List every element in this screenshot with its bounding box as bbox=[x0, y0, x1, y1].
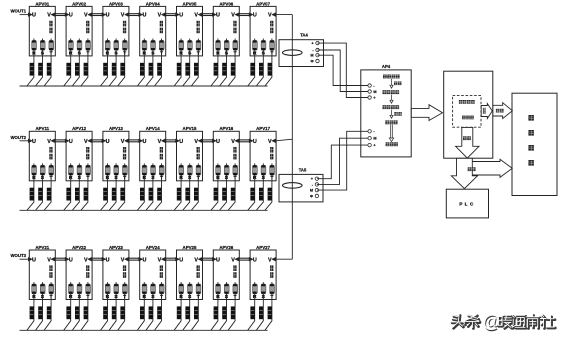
svg-text:U: U bbox=[253, 13, 257, 19]
module APV15 box bbox=[177, 131, 203, 181]
fuse FU2 of APV02 lead bbox=[78, 39, 80, 41]
fuse FU3 of APV07 bottom cap bbox=[270, 48, 274, 50]
wire DC link APV16-APV17 lower bbox=[239, 141, 251, 143]
fuse FU1 of APV05 body bbox=[179, 40, 184, 50]
svg-text:V: V bbox=[84, 13, 88, 19]
wire DC link APV22-APV23 lower bbox=[92, 259, 104, 261]
wire DC link APV23-APV24 upper bbox=[129, 257, 141, 259]
fuse FU3 of APV25 bottom cap bbox=[196, 292, 200, 294]
text data on PLC arrow bbox=[468, 167, 472, 171]
fuse FU3 of APV23 bottom cap bbox=[123, 292, 127, 294]
wire row2 V output to series bus bbox=[276, 139, 293, 141]
wire label CS23 bbox=[112, 306, 116, 319]
vertical marking JX/JR of APV06 bbox=[233, 21, 236, 27]
fuse FU3 of APV06 top cap bbox=[233, 41, 237, 43]
svg-text:APV11: APV11 bbox=[35, 126, 49, 131]
fuse FU1 of APV23 body bbox=[105, 284, 110, 294]
wire phase R drop of APV06 bbox=[211, 50, 218, 86]
fuse FU2 of APV25 top cap bbox=[188, 284, 192, 286]
svg-text:V: V bbox=[231, 139, 235, 145]
wire label 3R06 bbox=[214, 63, 218, 76]
fuse FU1 of APV15 body bbox=[179, 165, 184, 175]
wire label 3T12 bbox=[84, 188, 88, 201]
fuse FU3 of APV02 top cap bbox=[86, 41, 90, 43]
arrow into V of APV03 bbox=[125, 13, 129, 17]
wire row3 V output from series bus bbox=[276, 258, 293, 260]
module APV01 box bbox=[29, 6, 55, 56]
fuse FU2 of APV07 body bbox=[261, 40, 266, 50]
current transformer TA5 coil bbox=[283, 183, 303, 189]
wire label 3S17 bbox=[259, 188, 263, 201]
arrow into U of APV23 bbox=[102, 257, 106, 261]
text data inside box arrow bbox=[463, 136, 467, 140]
fuse FU1 of APV22 body bbox=[69, 284, 74, 294]
wire label 3S01 bbox=[38, 63, 42, 76]
fuse FU2 of APV17 bottom cap bbox=[261, 173, 265, 175]
comparator inner dashed box bbox=[453, 96, 481, 128]
wire DC link APV06-APV07 lower bbox=[239, 15, 251, 17]
fuse FU3 of APV04 top cap bbox=[160, 41, 164, 43]
small hollow arrow comparator internal bbox=[481, 104, 492, 119]
wire phase T drop of APV23 bbox=[118, 294, 125, 330]
svg-text:APV16: APV16 bbox=[219, 126, 233, 131]
module APV11 box bbox=[29, 131, 55, 181]
HMI text machine bbox=[528, 130, 534, 136]
fuse FU1 of APV04 lead bbox=[143, 39, 145, 41]
fuse FU2 of APV04 body bbox=[151, 40, 156, 50]
fuse FU1 of APV07 top cap bbox=[253, 41, 257, 43]
vertical marking JX/JR of APV15 bbox=[197, 147, 200, 153]
wire phase S drop of APV26 bbox=[220, 294, 227, 330]
wire phase T drop of APV25 bbox=[191, 294, 198, 330]
fuse FU3 of APV25 lead bbox=[197, 282, 199, 284]
fuse FU1 of APV05 lead bbox=[180, 39, 182, 41]
wire phase R drop of APV22 bbox=[64, 294, 71, 330]
module APV14 box bbox=[140, 131, 166, 181]
fuse FU2 of APV03 lead bbox=[115, 39, 117, 41]
wire phase T drop of APV15 bbox=[191, 175, 198, 210]
wire label 3R15 bbox=[177, 188, 181, 201]
wire DC link APV03-APV04 upper bbox=[129, 13, 141, 15]
fuse FU3 of APV17 top cap bbox=[270, 165, 274, 167]
fuse FU1 of APV12 bottom cap bbox=[69, 173, 73, 175]
fuse FU3 of APV21 lead bbox=[50, 282, 52, 284]
svg-text:V: V bbox=[158, 257, 162, 263]
arrow into U of APV14 bbox=[139, 139, 143, 143]
PLC box bbox=[446, 189, 488, 218]
fuse FU2 of APV25 body bbox=[188, 284, 193, 294]
svg-text:Φ: Φ bbox=[310, 59, 313, 63]
fuse FU3 of APV14 lead bbox=[161, 163, 163, 165]
wire phase T drop of APV01 bbox=[44, 50, 51, 86]
wire label CS22 bbox=[75, 306, 79, 319]
svg-text:M: M bbox=[310, 189, 313, 193]
arrow into V of APV24 bbox=[161, 257, 165, 261]
fuse FU1 of APV07 lead bbox=[254, 39, 256, 41]
arrow into U of APV13 bbox=[102, 139, 106, 143]
fuse FU1 of APV22 top cap bbox=[69, 284, 73, 286]
fuse FU2 of APV06 bottom cap bbox=[225, 48, 229, 50]
fuse FU2 of APV22 lead bbox=[78, 282, 80, 284]
AP4 flow connector 2 bbox=[390, 95, 393, 104]
AP4 flow connector 3 bbox=[390, 110, 393, 119]
wire label CT22 bbox=[84, 306, 88, 319]
fuse FU3 of APV02 bottom cap bbox=[86, 48, 90, 50]
svg-text:U: U bbox=[142, 257, 146, 263]
fuse FU2 of APV06 top cap bbox=[225, 41, 229, 43]
fuse FU1 of APV17 top cap bbox=[253, 165, 257, 167]
svg-text:+: + bbox=[373, 144, 376, 148]
arrow into V of APV01 bbox=[51, 13, 55, 17]
svg-text:V: V bbox=[194, 139, 198, 145]
fuse FU2 of APV25 bottom cap bbox=[188, 292, 192, 294]
fuse FU3 of APV07 top cap bbox=[270, 41, 274, 43]
svg-text:U: U bbox=[142, 139, 146, 145]
fuse FU3 of APV06 bottom cap bbox=[233, 48, 237, 50]
wire phase S drop of APV12 bbox=[72, 175, 79, 210]
wire DC link APV04-APV05 lower bbox=[165, 15, 177, 17]
svg-text:APV04: APV04 bbox=[146, 1, 160, 6]
fuse FU1 of APV27 body bbox=[253, 284, 258, 294]
module APV16 box bbox=[213, 131, 239, 181]
arrow into V of APV17 bbox=[272, 139, 276, 143]
wire phase T drop of APV12 bbox=[81, 175, 88, 210]
wire DC link APV21-APV22 lower bbox=[55, 259, 67, 261]
svg-text:V: V bbox=[268, 257, 272, 263]
svg-text:APV05: APV05 bbox=[183, 1, 197, 6]
fuse FU3 of APV14 bottom cap bbox=[160, 173, 164, 175]
bus bar row 3 bbox=[20, 329, 268, 331]
svg-text:U: U bbox=[69, 257, 73, 263]
fuse FU3 of APV23 top cap bbox=[123, 284, 127, 286]
fuse FU2 of APV27 bottom cap bbox=[261, 292, 265, 294]
fuse FU3 of APV05 body bbox=[196, 40, 201, 50]
wire label CS27 bbox=[259, 306, 263, 319]
fuse FU3 of APV01 lead bbox=[50, 39, 52, 41]
wire WOUT3 input feed bbox=[20, 258, 30, 260]
arrow into V of APV27 bbox=[272, 257, 276, 261]
fuse FU1 of APV22 lead bbox=[70, 282, 72, 284]
fuse FU3 of APV22 bottom cap bbox=[86, 292, 90, 294]
fuse FU3 of APV12 bottom cap bbox=[86, 173, 90, 175]
wire label CS25 bbox=[185, 306, 189, 319]
vertical marking JX/JR of APV07 bbox=[270, 21, 273, 27]
wire label 3R01 bbox=[30, 63, 34, 76]
wire phase T drop of APV07 bbox=[265, 50, 272, 86]
arrow into U of APV27 bbox=[249, 257, 253, 261]
module APV23 box bbox=[103, 250, 129, 300]
svg-text:U: U bbox=[142, 13, 146, 19]
wire phase S drop of APV21 bbox=[36, 294, 43, 330]
fuse FU1 of APV24 bottom cap bbox=[142, 292, 146, 294]
wire phase S drop of APV17 bbox=[256, 175, 263, 210]
fuse FU2 of APV23 bottom cap bbox=[114, 292, 118, 294]
svg-text:APV12: APV12 bbox=[72, 126, 86, 131]
fuse FU3 of APV14 top cap bbox=[160, 165, 164, 167]
HMI text inter bbox=[528, 145, 534, 151]
wire label CR27 bbox=[250, 306, 254, 319]
svg-text:AP4: AP4 bbox=[382, 64, 391, 69]
wire label 3T14 bbox=[157, 188, 161, 201]
wire label 3T17 bbox=[268, 188, 272, 201]
fuse FU1 of APV03 top cap bbox=[106, 41, 110, 43]
fuse FU2 of APV14 top cap bbox=[151, 165, 155, 167]
small arrow vertical tag bbox=[483, 108, 486, 111]
TA4 terminal Φ pin bbox=[316, 59, 319, 62]
fuse FU3 of APV21 top cap bbox=[49, 284, 53, 286]
fuse FU2 of APV01 top cap bbox=[41, 41, 45, 43]
wire phase T drop of APV22 bbox=[81, 294, 88, 330]
fuse FU2 of APV16 lead bbox=[226, 163, 228, 165]
wire TA5 + to AP4 bbox=[317, 145, 370, 179]
wire TA4 M to AP4 bbox=[318, 55, 370, 85]
fuse FU1 of APV26 top cap bbox=[216, 284, 220, 286]
fuse FU3 of APV22 body bbox=[86, 284, 91, 294]
wire phase R drop of APV04 bbox=[137, 50, 144, 86]
fuse FU3 of APV05 top cap bbox=[196, 41, 200, 43]
fuse FU2 of APV16 body bbox=[224, 165, 229, 175]
fuse FU3 of APV07 body bbox=[270, 40, 275, 50]
fuse FU2 of APV16 top cap bbox=[225, 165, 229, 167]
fuse FU2 of APV24 body bbox=[151, 284, 156, 294]
arrow into V of APV15 bbox=[198, 139, 202, 143]
fuse FU2 of APV27 top cap bbox=[261, 284, 265, 286]
TA5 terminal Φ pin bbox=[315, 194, 318, 197]
wire label 3R07 bbox=[250, 63, 254, 76]
wire label 3S02 bbox=[75, 63, 79, 76]
arrow into V of APV14 bbox=[161, 139, 165, 143]
arrow into V of APV06 bbox=[235, 13, 239, 17]
fuse FU3 of APV13 body bbox=[123, 165, 128, 175]
svg-text:U: U bbox=[106, 257, 110, 263]
wire label CR24 bbox=[140, 306, 144, 319]
wire phase T drop of APV06 bbox=[228, 50, 235, 86]
svg-text:U: U bbox=[216, 13, 220, 19]
svg-text:V: V bbox=[121, 139, 125, 145]
fuse FU3 of APV22 lead bbox=[87, 282, 89, 284]
fuse FU1 of APV17 body bbox=[253, 165, 258, 175]
fuse FU2 of APV26 bottom cap bbox=[225, 292, 229, 294]
svg-text:U: U bbox=[32, 13, 36, 19]
fuse FU1 of APV22 bottom cap bbox=[69, 292, 73, 294]
fuse FU2 of APV13 body bbox=[114, 165, 119, 175]
controller AP4 box bbox=[361, 70, 411, 157]
fuse FU1 of APV15 top cap bbox=[179, 165, 183, 167]
svg-text:V: V bbox=[231, 257, 235, 263]
wire label CR22 bbox=[66, 306, 70, 319]
fuse FU2 of APV16 bottom cap bbox=[225, 173, 229, 175]
wire label 3T13 bbox=[120, 188, 124, 201]
fuse FU1 of APV21 bottom cap bbox=[32, 292, 36, 294]
wire label 3S11 bbox=[38, 188, 42, 201]
arrow into V of APV23 bbox=[125, 257, 129, 261]
wire TA4 - to AP4 bbox=[318, 50, 370, 92]
vertical marking JX/JR of APV03 bbox=[123, 21, 126, 27]
wire DC link APV02-APV03 upper bbox=[92, 13, 104, 15]
wire label CT23 bbox=[120, 306, 124, 319]
svg-text:-: - bbox=[373, 84, 375, 88]
wire DC link APV15-APV16 lower bbox=[202, 141, 214, 143]
wire TA5 M to AP4 bbox=[317, 131, 370, 190]
fuse FU1 of APV23 top cap bbox=[106, 284, 110, 286]
arrow into U of APV11 bbox=[28, 139, 32, 143]
fuse FU3 of APV21 bottom cap bbox=[49, 292, 53, 294]
wire DC link APV13-APV14 lower bbox=[129, 141, 141, 143]
fuse FU3 of APV03 body bbox=[123, 40, 128, 50]
svg-text:APV02: APV02 bbox=[72, 1, 86, 6]
svg-text:U: U bbox=[69, 13, 73, 19]
svg-text:-: - bbox=[312, 48, 314, 52]
vertical marking JX/JR of APV27 bbox=[270, 265, 273, 271]
fuse FU2 of APV15 body bbox=[188, 165, 193, 175]
fuse FU3 of APV06 body bbox=[233, 40, 238, 50]
wire phase S drop of APV13 bbox=[109, 175, 116, 210]
fuse FU3 of APV11 top cap bbox=[49, 165, 53, 167]
fuse FU2 of APV23 top cap bbox=[114, 284, 118, 286]
fuse FU2 of APV13 top cap bbox=[114, 165, 118, 167]
wire DC link APV04-APV05 upper bbox=[165, 13, 177, 15]
comparator outer box bbox=[444, 71, 493, 158]
fuse FU3 of APV23 body bbox=[123, 284, 128, 294]
fuse FU1 of APV04 top cap bbox=[142, 41, 146, 43]
wire DC link APV26-APV27 lower bbox=[239, 259, 251, 261]
wire WOUT1 input feed bbox=[20, 14, 30, 16]
wire label 3T04 bbox=[157, 63, 161, 76]
wire phase T drop of APV26 bbox=[228, 294, 235, 330]
arrow into U of APV01 bbox=[28, 13, 32, 17]
vertical marking JX/JR of APV24 bbox=[160, 265, 163, 271]
fuse FU3 of APV22 top cap bbox=[86, 284, 90, 286]
svg-text:APV01: APV01 bbox=[35, 1, 49, 6]
fuse FU2 of APV22 top cap bbox=[77, 284, 81, 286]
wire phase T drop of APV17 bbox=[265, 175, 272, 210]
fuse FU3 of APV13 bottom cap bbox=[123, 173, 127, 175]
fuse FU3 of APV21 body bbox=[49, 284, 54, 294]
fuse FU1 of APV26 bottom cap bbox=[216, 292, 220, 294]
wire phase R drop of APV15 bbox=[174, 175, 181, 210]
fuse FU2 of APV26 top cap bbox=[225, 284, 229, 286]
wire label 3S15 bbox=[185, 188, 189, 201]
fuse FU2 of APV07 bottom cap bbox=[261, 48, 265, 50]
fuse FU2 of APV11 body bbox=[40, 165, 45, 175]
fuse FU3 of APV25 body bbox=[196, 284, 201, 294]
TA4 terminal M pin bbox=[316, 54, 319, 57]
fuse FU1 of APV27 top cap bbox=[253, 284, 257, 286]
wire phase R drop of APV17 bbox=[248, 175, 255, 210]
wire label 3R17 bbox=[250, 188, 254, 201]
arrow into V of APV25 bbox=[198, 257, 202, 261]
fuse FU1 of APV06 bottom cap bbox=[216, 48, 220, 50]
fuse FU3 of APV13 lead bbox=[124, 163, 126, 165]
fuse FU3 of APV01 bottom cap bbox=[49, 48, 53, 50]
fuse FU2 of APV05 top cap bbox=[188, 41, 192, 43]
AP4 lower terminal M pin bbox=[368, 137, 371, 140]
fuse FU2 of APV03 body bbox=[114, 40, 119, 50]
fuse FU1 of APV26 body bbox=[216, 284, 221, 294]
fuse FU2 of APV15 bottom cap bbox=[188, 173, 192, 175]
fuse FU1 of APV12 body bbox=[69, 165, 74, 175]
arrow into V of APV12 bbox=[88, 139, 92, 143]
wire label 3T15 bbox=[194, 188, 198, 201]
fuse FU2 of APV22 bottom cap bbox=[77, 292, 81, 294]
wire phase T drop of APV11 bbox=[44, 175, 51, 210]
wire phase S drop of APV04 bbox=[146, 50, 153, 86]
fuse FU2 of APV27 lead bbox=[262, 282, 264, 284]
module APV04 box bbox=[140, 6, 166, 56]
fuse FU3 of APV27 lead bbox=[271, 282, 273, 284]
wire label 3R14 bbox=[140, 188, 144, 201]
svg-text:V: V bbox=[121, 13, 125, 19]
wire WOUT2 input feed bbox=[20, 140, 30, 142]
fuse FU1 of APV17 bottom cap bbox=[253, 173, 257, 175]
AP4 text single-phase voltage bbox=[383, 90, 387, 94]
module APV26 box bbox=[213, 250, 239, 300]
arrow into U of APV02 bbox=[65, 13, 69, 17]
fuse FU1 of APV21 lead bbox=[33, 282, 35, 284]
arrow into U of APV04 bbox=[139, 13, 143, 17]
fuse FU1 of APV13 top cap bbox=[106, 165, 110, 167]
fuse FU3 of APV11 body bbox=[49, 165, 54, 175]
fuse FU1 of APV21 body bbox=[32, 284, 37, 294]
fuse FU3 of APV12 lead bbox=[87, 163, 89, 165]
arrow into U of APV06 bbox=[212, 13, 216, 17]
wire DC link APV15-APV16 upper bbox=[202, 139, 214, 141]
vertical marking JX/JR of APV23 bbox=[123, 265, 126, 271]
fuse FU1 of APV07 bottom cap bbox=[253, 48, 257, 50]
fuse FU3 of APV15 body bbox=[196, 165, 201, 175]
arrow into V of APV22 bbox=[88, 257, 92, 261]
wire phase S drop of APV23 bbox=[109, 294, 116, 330]
hollow arrow AP4 to comparator bbox=[411, 105, 442, 121]
fuse FU3 of APV27 bottom cap bbox=[270, 292, 274, 294]
fuse FU3 of APV17 body bbox=[270, 165, 275, 175]
svg-text:V: V bbox=[268, 139, 272, 145]
svg-text:WOUT3: WOUT3 bbox=[11, 253, 27, 258]
vertical marking JX/JR of APV16 bbox=[233, 147, 236, 153]
AP4 upper terminal M pin bbox=[368, 90, 371, 93]
arrow into U of APV25 bbox=[176, 257, 180, 261]
fuse FU3 of APV27 body bbox=[270, 284, 275, 294]
fuse FU3 of APV01 top cap bbox=[49, 41, 53, 43]
fuse FU3 of APV23 lead bbox=[124, 282, 126, 284]
arrow into V of APV26 bbox=[235, 257, 239, 261]
fuse FU1 of APV16 top cap bbox=[216, 165, 220, 167]
fuse FU3 of APV03 top cap bbox=[123, 41, 127, 43]
fuse FU2 of APV21 bottom cap bbox=[41, 292, 45, 294]
fuse FU3 of APV27 top cap bbox=[270, 284, 274, 286]
wire DC link APV06-APV07 upper bbox=[239, 13, 251, 15]
fuse FU1 of APV05 top cap bbox=[179, 41, 183, 43]
fuse FU3 of APV11 bottom cap bbox=[49, 173, 53, 175]
fuse FU2 of APV11 top cap bbox=[41, 165, 45, 167]
wire label 3R16 bbox=[214, 188, 218, 201]
fuse FU1 of APV24 body bbox=[142, 284, 147, 294]
svg-text:V: V bbox=[47, 13, 51, 19]
fuse FU2 of APV06 lead bbox=[226, 39, 228, 41]
module APV06 box bbox=[213, 6, 239, 56]
wire phase R drop of APV16 bbox=[211, 175, 218, 210]
fuse FU2 of APV12 bottom cap bbox=[77, 173, 81, 175]
fuse FU1 of APV16 bottom cap bbox=[216, 173, 220, 175]
wire phase R drop of APV05 bbox=[174, 50, 181, 86]
svg-text:APV07: APV07 bbox=[256, 1, 270, 6]
wire series vertical bus bbox=[291, 15, 293, 260]
arrow into U of APV12 bbox=[65, 139, 69, 143]
fuse FU2 of APV13 lead bbox=[115, 163, 117, 165]
wire label 3R13 bbox=[103, 188, 107, 201]
fuse FU1 of APV12 top cap bbox=[69, 165, 73, 167]
module APV21 box bbox=[29, 250, 55, 300]
